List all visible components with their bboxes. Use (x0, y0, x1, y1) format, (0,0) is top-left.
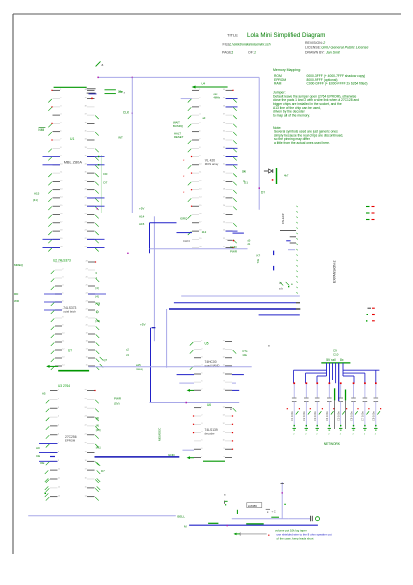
svg-text:26: 26 (85, 205, 87, 207)
diode D1 (264, 168, 277, 184)
U2 right diagonals lower (100, 357, 108, 368)
svg-text:PWR: PWR (114, 397, 122, 401)
amp U7 label (247, 503, 262, 508)
svg-text:12: 12 (58, 487, 60, 489)
svg-text:24: 24 (85, 407, 87, 409)
svg-text:2: 2 (322, 41, 325, 45)
svg-text:32: 32 (223, 155, 225, 157)
svg-text:22p: 22p (118, 90, 123, 94)
svg-text:37: 37 (223, 114, 225, 116)
IC U5 74HC00 pins (190, 340, 236, 391)
page line (222, 50, 256, 54)
svg-text:C3 100n: C3 100n (313, 411, 317, 421)
svg-text:7: 7 (58, 442, 59, 444)
U1 label (64, 156, 100, 166)
svg-text:7: 7 (201, 389, 202, 391)
svg-text:10: 10 (62, 333, 64, 335)
svg-text:13: 13 (60, 188, 62, 190)
svg-text:[40]: [40] (96, 428, 101, 432)
svg-text:octal latch: octal latch (63, 309, 76, 313)
svg-text:17: 17 (60, 221, 62, 223)
svg-text:RAM: RAM (274, 82, 282, 86)
crystal value labels (118, 90, 123, 94)
svg-text:DRAWN BY:: DRAWN BY: (305, 51, 325, 55)
wire clk horizontal (97, 77, 259, 79)
amp wire 2 (288, 518, 310, 520)
cap feed wires (294, 384, 376, 398)
svg-text:30: 30 (85, 172, 87, 174)
wire vertical x150 lower (150, 328, 152, 403)
svg-text:5: 5 (62, 293, 63, 295)
IC U2 74LS373 pins (44, 261, 106, 370)
svg-text:5: 5 (58, 425, 59, 427)
svg-text:[4]: [4] (96, 416, 99, 420)
U4 bottom red cue (228, 240, 251, 247)
U5 right labels (242, 349, 248, 357)
svg-text:INT: INT (118, 135, 123, 139)
svg-text:A0: A0 (36, 446, 40, 450)
svg-text:16: 16 (60, 213, 62, 215)
U3 right bracket labels (96, 416, 101, 450)
svg-text:C8 100n: C8 100n (372, 411, 376, 421)
U6 top label (207, 403, 232, 411)
svg-text:29: 29 (223, 180, 225, 182)
svg-text:36: 36 (223, 122, 225, 124)
connector J1 dashed pin column (297, 206, 298, 294)
svg-text:14: 14 (223, 340, 225, 342)
svg-text:3: 3 (199, 106, 200, 108)
svg-text:15: 15 (199, 205, 201, 207)
svg-text:4: 4 (60, 114, 61, 116)
svg-text:19: 19 (85, 451, 87, 453)
label IORQ (180, 217, 188, 221)
svg-text:Q7: Q7 (104, 358, 108, 362)
svg-text:18: 18 (60, 230, 62, 232)
decoupling label (324, 442, 341, 446)
U4 left red attribute text (183, 159, 185, 194)
svg-text:12: 12 (223, 423, 225, 425)
U4 refdes (201, 82, 205, 86)
svg-text:2: 2 (201, 348, 202, 350)
amp C marks right (266, 509, 276, 513)
label M bottom (184, 524, 187, 528)
svg-text:C4 100n: C4 100n (325, 411, 329, 421)
svg-text:Lola Mini Simplified Diagram: Lola Mini Simplified Diagram (247, 32, 325, 39)
U4 pin1 left wire (181, 98, 192, 100)
svg-text:CE: CE (36, 454, 40, 458)
svg-text:BUSRQ: BUSRQ (173, 124, 184, 128)
svg-text:9: 9 (224, 381, 225, 383)
U1 data labels (103, 172, 107, 185)
D1 value label (284, 174, 289, 178)
svg-text:5V rail: 5V rail (326, 358, 336, 362)
svg-text:7: 7 (60, 139, 61, 141)
svg-text:8: 8 (58, 451, 59, 453)
svg-text:4k7: 4k7 (284, 174, 289, 178)
svg-text:21: 21 (223, 246, 225, 248)
svg-text:26: 26 (85, 389, 87, 391)
U1 refdes (70, 137, 74, 141)
amp green vert (236, 510, 238, 514)
svg-text:14: 14 (60, 197, 62, 199)
U3 top label (58, 384, 70, 388)
U4 label (205, 158, 219, 166)
U2 top label (53, 259, 71, 263)
svg-text:Memory Mapping:: Memory Mapping: (273, 68, 301, 72)
svg-text:11: 11 (58, 478, 60, 480)
svg-text:74x: 74x (256, 258, 260, 263)
svg-text:12: 12 (223, 356, 225, 358)
svg-text:[41]: [41] (33, 198, 38, 202)
svg-text:IORQ: IORQ (180, 217, 188, 221)
U6 bottom green wire (203, 460, 225, 462)
vertical label EXPANSION (333, 260, 337, 283)
svg-text:1: 1 (60, 89, 61, 91)
svg-text:38: 38 (85, 106, 87, 108)
svg-text:27: 27 (85, 197, 87, 199)
notes: general note (273, 126, 343, 145)
amp arrow (234, 533, 241, 536)
svg-text:TITLE: TITLE (227, 32, 238, 37)
svg-text:28: 28 (223, 188, 225, 190)
svg-text:37: 37 (85, 114, 87, 116)
svg-text:LM386: LM386 (248, 504, 258, 508)
revision line (305, 41, 325, 45)
svg-text:11: 11 (62, 341, 64, 343)
svg-text:21: 21 (85, 433, 87, 435)
svg-text:10: 10 (199, 163, 201, 165)
svg-text:17: 17 (86, 349, 88, 351)
svg-text:REVISION:: REVISION: (305, 41, 323, 45)
power label (326, 358, 344, 362)
U6 side vertical text (158, 427, 162, 441)
svg-text:OF:: OF: (248, 50, 254, 54)
ground symbols (293, 428, 378, 435)
svg-text:[4]: [4] (96, 295, 99, 299)
svg-text:c2: c2 (126, 348, 129, 352)
svg-text:15: 15 (86, 365, 88, 367)
svg-text:22: 22 (223, 238, 225, 240)
svg-text:4: 4 (58, 416, 59, 418)
capacitor attribute cues (287, 408, 382, 409)
svg-text:NMI: NMI (38, 128, 44, 132)
svg-text:17: 17 (85, 469, 87, 471)
svg-text:6: 6 (201, 381, 202, 383)
svg-text:4MHz: 4MHz (214, 97, 221, 100)
svg-text:14: 14 (199, 197, 201, 199)
svg-text:A5: A5 (42, 391, 46, 395)
amp input vertical wire (281, 482, 286, 519)
notes: memory mapping (273, 68, 367, 86)
J1 bottom label (279, 281, 289, 291)
U6 left faint wire (183, 449, 195, 451)
svg-text:38: 38 (223, 106, 225, 108)
svg-text:36: 36 (85, 122, 87, 124)
U2 label (63, 306, 76, 313)
U6 gnd label (168, 453, 176, 457)
svg-text:9: 9 (224, 448, 225, 450)
svg-text:18: 18 (85, 460, 87, 462)
svg-text:3: 3 (201, 356, 202, 358)
svg-text:10: 10 (223, 440, 225, 442)
svg-text:10: 10 (223, 373, 225, 375)
svg-text:D?: D? (261, 191, 265, 195)
svg-text:39: 39 (223, 97, 225, 99)
amp feedback wire (240, 533, 267, 536)
svg-text:CLK3: CLK3 (183, 239, 190, 243)
U1 faint green bus (100, 155, 102, 213)
U4 bottom left wire (177, 232, 193, 234)
svg-text:22: 22 (86, 309, 88, 311)
svg-text:7: 7 (201, 456, 202, 458)
crystal X1 (87, 89, 126, 99)
svg-text:8: 8 (62, 317, 63, 319)
svg-text:22: 22 (85, 238, 87, 240)
J1 vertical tiny text (281, 213, 285, 224)
svg-text:15: 15 (60, 205, 62, 207)
svg-text:+5V: +5V (139, 207, 144, 211)
svg-text:C6 100n: C6 100n (349, 411, 353, 421)
U3 left top label (42, 391, 46, 395)
svg-text:(5V): (5V) (114, 402, 120, 406)
junction dot x128 (127, 253, 128, 254)
svg-text:6: 6 (201, 448, 202, 450)
svg-text:OE: OE (40, 461, 44, 465)
capacitor labels (290, 411, 380, 421)
bus vertical x166.6 (166, 309, 168, 368)
U3 thick wire (50, 456, 55, 458)
svg-text:U?: U? (68, 349, 72, 353)
svg-text:18: 18 (86, 341, 88, 343)
svg-text:34: 34 (85, 139, 87, 141)
svg-text:3: 3 (62, 277, 63, 279)
amp speaker (311, 516, 320, 521)
svg-text:A15: A15 (34, 192, 40, 196)
svg-text:4: 4 (201, 431, 202, 433)
svg-text:7: 7 (199, 139, 200, 141)
svg-text:mreq: mreq (136, 367, 143, 371)
U4 bottom green labels (230, 245, 238, 253)
svg-text:[4]: [4] (96, 286, 99, 290)
svg-text:5: 5 (199, 122, 200, 124)
wire U1 top (54, 86, 87, 88)
wire y366.8 (89, 366, 252, 368)
svg-text:U2 74LS373: U2 74LS373 (53, 259, 71, 263)
wire x149.5 top bend (150, 222, 177, 224)
svg-text:5: 5 (201, 440, 202, 442)
J1 pin stubs (280, 231, 296, 250)
amp Q1 marks (224, 494, 228, 506)
IC U3 27C256 pins (39, 389, 99, 501)
cap green dots (294, 425, 377, 426)
U4 inner top labels (214, 93, 221, 99)
IC U6 74LS139 pins (193, 406, 236, 458)
svg-text:K?: K? (257, 254, 261, 258)
svg-text:16: 16 (85, 478, 87, 480)
svg-text:11: 11 (60, 172, 62, 174)
power C9 C10 labels (333, 349, 339, 357)
amp note line 2 (277, 532, 332, 536)
svg-text:MBL Z80A: MBL Z80A (64, 159, 83, 164)
svg-text:15: 15 (85, 487, 87, 489)
U4 left net labels (173, 121, 184, 140)
net labels near verticals (139, 207, 145, 227)
file line (223, 43, 271, 47)
svg-text:MOS array: MOS array (205, 162, 219, 166)
svg-text:10: 10 (58, 469, 60, 471)
net label INT (118, 135, 123, 139)
svg-text:25: 25 (86, 285, 88, 287)
svg-text:23: 23 (85, 230, 87, 232)
svg-text:24: 24 (86, 293, 88, 295)
svg-text:U5: U5 (205, 342, 209, 346)
svg-text:+ C: + C (272, 510, 276, 514)
page border top (13, 13, 401, 15)
svg-text:13: 13 (199, 188, 201, 190)
svg-text:9: 9 (62, 325, 63, 327)
svg-text:2: 2 (62, 269, 63, 271)
bus wire 4 (259, 314, 300, 316)
svg-text:39: 39 (85, 97, 87, 99)
svg-text:16: 16 (86, 357, 88, 359)
svg-text:MREQ: MREQ (14, 263, 24, 267)
svg-text:40: 40 (223, 89, 225, 91)
bus +5V label (140, 323, 155, 328)
U5 left faint wire (179, 382, 194, 384)
svg-text:PWR: PWR (230, 249, 238, 253)
U5 right faint wire (232, 382, 236, 384)
amp junction dot (227, 525, 228, 526)
svg-text:31: 31 (85, 163, 87, 165)
U5 left blue wire (177, 374, 194, 376)
electrolytic C9 C10 (335, 388, 346, 429)
svg-text:A14: A14 (139, 215, 145, 219)
svg-text:12: 12 (199, 180, 201, 182)
U4 bottom text (183, 230, 207, 243)
svg-text:2: 2 (201, 415, 202, 417)
label D? (261, 191, 265, 195)
svg-text:8: 8 (224, 389, 225, 391)
svg-text:26: 26 (223, 205, 225, 207)
label PWR 5V (114, 397, 122, 406)
svg-text:8: 8 (224, 456, 225, 458)
connector J3 stubs (366, 308, 375, 321)
svg-text:33: 33 (85, 147, 87, 149)
svg-text:A15: A15 (139, 222, 145, 226)
svg-text:decoder: decoder (205, 431, 215, 435)
svg-text:a: a (102, 63, 104, 67)
svg-text:5: 5 (201, 373, 202, 375)
svg-text:13: 13 (58, 495, 60, 497)
svg-text:NETWORK: NETWORK (324, 442, 341, 446)
svg-text:D7: D7 (103, 181, 107, 185)
svg-text:9: 9 (60, 155, 61, 157)
svg-text:C5 100n: C5 100n (337, 411, 341, 421)
svg-text:6: 6 (58, 433, 59, 435)
svg-text:[40]: [40] (96, 301, 101, 305)
net NMI label (38, 128, 45, 133)
svg-text:28: 28 (86, 261, 88, 263)
svg-text:2: 2 (58, 398, 59, 400)
svg-text:20: 20 (86, 325, 88, 327)
svg-text:14: 14 (62, 365, 64, 367)
U5 top label (205, 342, 271, 348)
U2 refdes lower (68, 349, 72, 353)
amp green seg c (271, 516, 279, 518)
svg-text:8: 8 (199, 147, 200, 149)
svg-text:40: 40 (85, 89, 87, 91)
net label A15 (33, 192, 40, 203)
svg-text:13: 13 (223, 348, 225, 350)
svg-text:20: 20 (85, 442, 87, 444)
svg-text:25: 25 (223, 213, 225, 215)
U2 right bracket labels (96, 286, 101, 323)
green labels right of U2 low (126, 348, 129, 358)
svg-text:4: 4 (62, 285, 63, 287)
svg-text:1: 1 (199, 89, 200, 91)
svg-text:14: 14 (85, 495, 87, 497)
bus diag marks (280, 282, 293, 286)
svg-text:11: 11 (223, 365, 225, 367)
svg-text:13: 13 (223, 415, 225, 417)
wire y402.5 (150, 402, 240, 404)
svg-text:1: 1 (58, 389, 59, 391)
U5 left arrow (187, 389, 194, 392)
U2 right small labels (96, 272, 98, 281)
svg-text:31: 31 (223, 163, 225, 165)
svg-text:RESET: RESET (174, 135, 184, 139)
U4 bottom right wire (233, 232, 244, 234)
svg-text:EXPANSION-2: EXPANSION-2 (333, 260, 337, 283)
svg-text:17: 17 (199, 221, 201, 223)
label K? (257, 254, 261, 258)
svg-text:20: 20 (60, 246, 62, 248)
svg-text:11: 11 (223, 431, 225, 433)
wire EPROM data bus (95, 456, 180, 458)
amp red cue (268, 535, 269, 536)
amp wire 1 (232, 518, 288, 520)
svg-text:27: 27 (223, 197, 225, 199)
svg-text:33: 33 (223, 147, 225, 149)
amp note line 3 (277, 536, 314, 540)
svg-text:23: 23 (86, 301, 88, 303)
label 4x (256, 258, 260, 263)
power fan wires (294, 363, 380, 401)
svg-text:C10: C10 (333, 353, 339, 357)
wire bottom blue (189, 524, 318, 526)
svg-text:112: 112 (202, 230, 207, 234)
power junction dots (293, 382, 376, 384)
green labels left of U5 (136, 363, 143, 371)
svg-text:6: 6 (60, 130, 61, 132)
svg-text:c3: c3 (126, 353, 129, 357)
svg-text:6: 6 (199, 130, 200, 132)
svg-text:32: 32 (85, 155, 87, 157)
svg-text:28: 28 (85, 188, 87, 190)
net labels left of U3 (36, 446, 44, 465)
svg-text:4: 4 (201, 365, 202, 367)
svg-text:20: 20 (199, 246, 201, 248)
license line (305, 46, 368, 50)
svg-text:4: 4 (199, 114, 200, 116)
wire bottom faint (28, 515, 176, 517)
svg-text:34: 34 (223, 139, 225, 141)
U5 right blue wire a (232, 374, 244, 376)
svg-text:9: 9 (199, 155, 200, 157)
svg-text:U6: U6 (207, 403, 211, 407)
svg-text:12: 12 (60, 180, 62, 182)
label BELL (177, 514, 185, 518)
